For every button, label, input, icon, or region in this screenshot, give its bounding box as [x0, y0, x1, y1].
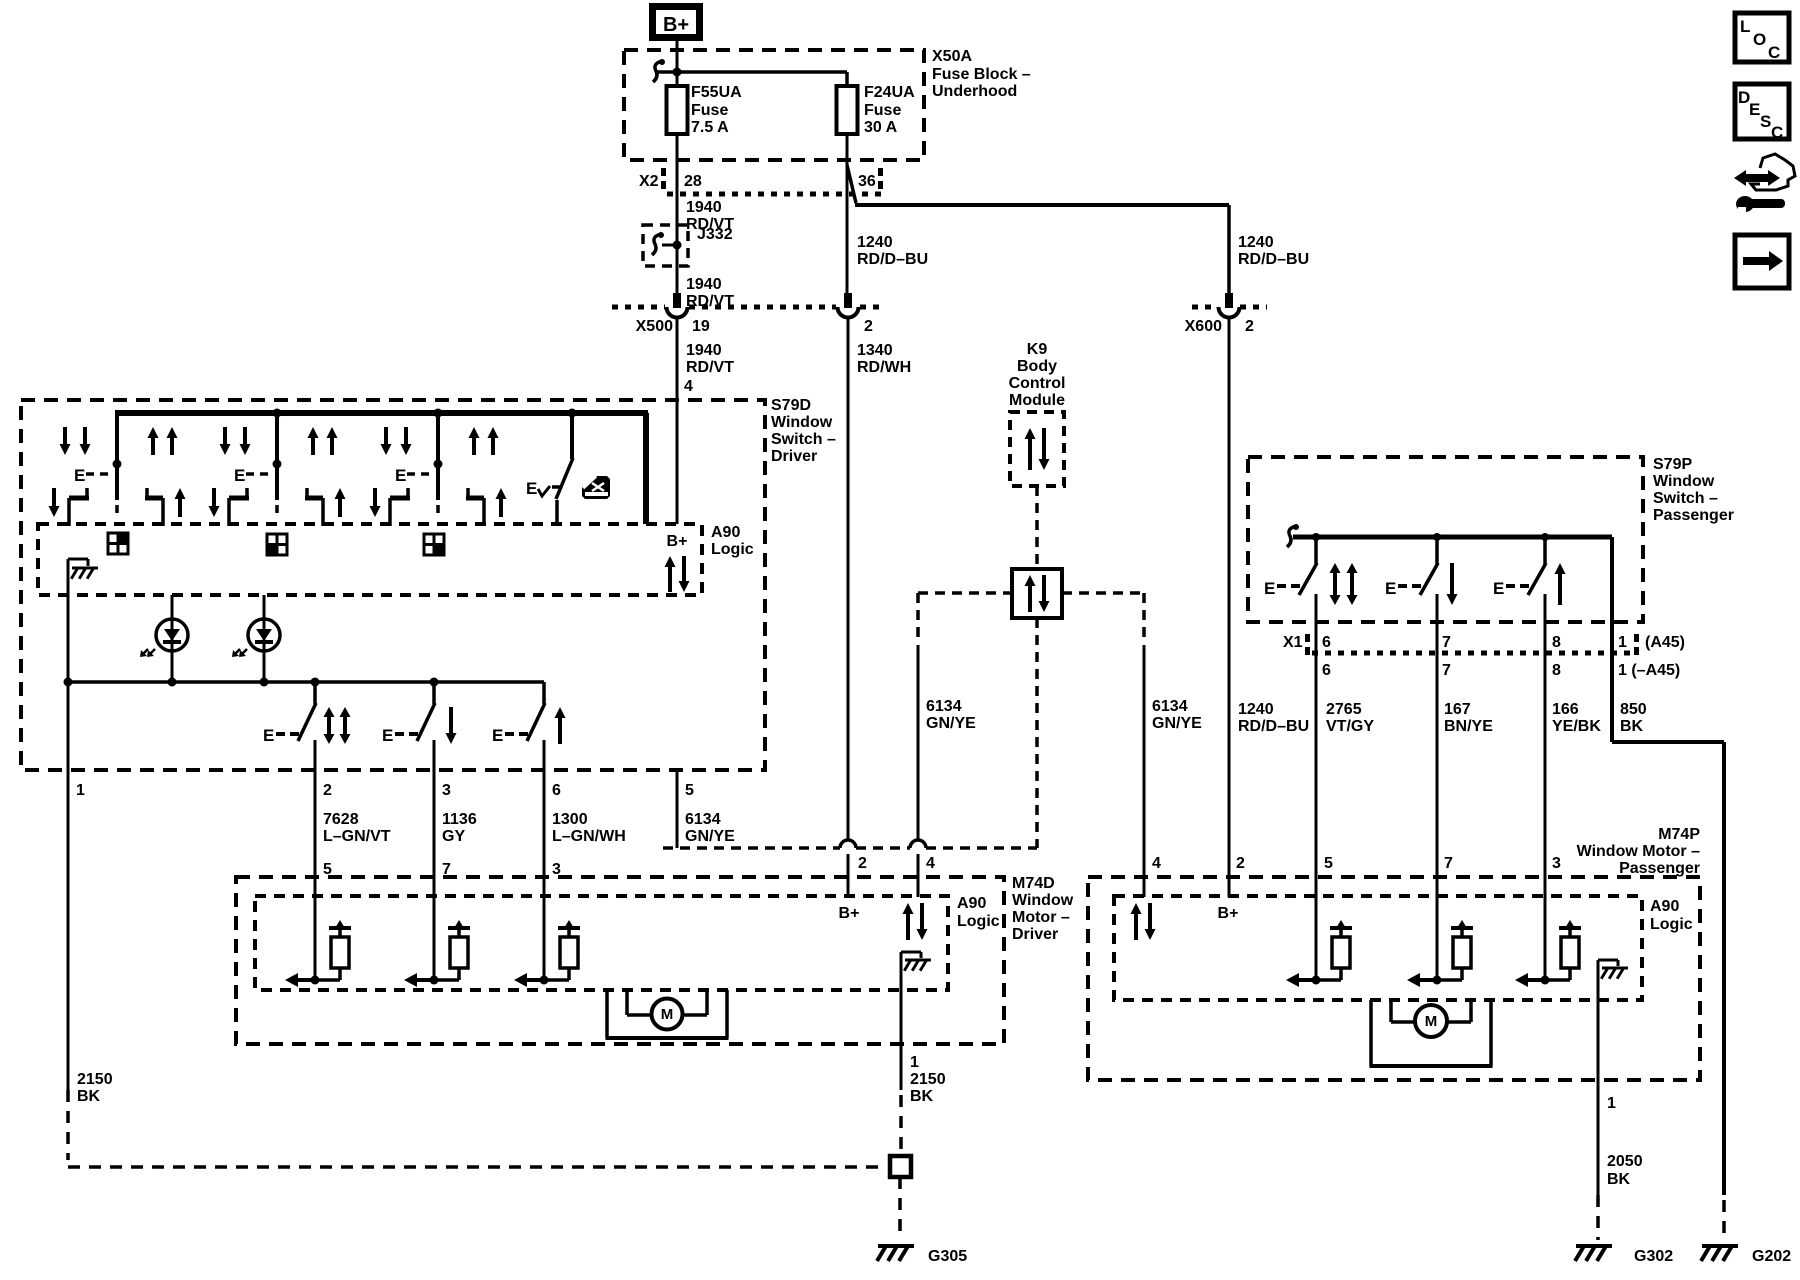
- svg-text:7.5 A: 7.5 A: [691, 119, 729, 136]
- ground logic of M74D: [900, 952, 903, 1090]
- switch to pin 2 with up-down arrows: [313, 682, 317, 704]
- svg-text:2050: 2050: [1607, 1153, 1643, 1170]
- svg-text:Logic: Logic: [1650, 916, 1693, 933]
- pin 4 logic arrows: [917, 877, 920, 897]
- junction node: [673, 68, 682, 77]
- serial data dashed wire K9 to data box: [1035, 486, 1039, 569]
- internal bus to switches: [68, 680, 544, 684]
- svg-text:VT/GY: VT/GY: [1326, 718, 1374, 735]
- svg-text:M74P: M74P: [1658, 826, 1700, 843]
- svg-text:3: 3: [1552, 855, 1561, 872]
- wire 6134 GN/YE to M74D pin 4: [917, 645, 920, 841]
- svg-text:2150: 2150: [910, 1071, 946, 1088]
- serial data dashed link to K9: [663, 846, 840, 850]
- svg-text:6134: 6134: [685, 811, 721, 828]
- svg-text:X600: X600: [1185, 318, 1222, 335]
- svg-text:7: 7: [1444, 855, 1453, 872]
- svg-text:GN/YE: GN/YE: [685, 828, 735, 845]
- wire hop over serial dashed line: [840, 840, 856, 848]
- internal supply bus of S79D: [115, 410, 648, 416]
- svg-text:B+: B+: [663, 14, 689, 36]
- svg-text:8: 8: [1552, 662, 1561, 679]
- backlight LED 2: [263, 595, 266, 619]
- wire 1240 RD/D-BU down to X600: [1227, 205, 1231, 300]
- passenger switch pin 8 up: [1543, 537, 1547, 564]
- svg-text:28: 28: [684, 173, 702, 190]
- wire 7628 L-GN/VT: [314, 770, 317, 877]
- M74P Window Motor - Passenger dashed box: [1088, 877, 1700, 1080]
- svg-text:Window: Window: [1012, 892, 1074, 909]
- ground G202: [1702, 1244, 1738, 1248]
- svg-text:Passenger: Passenger: [1653, 507, 1734, 524]
- svg-text:BN/YE: BN/YE: [1444, 718, 1493, 735]
- svg-text:Module: Module: [1009, 392, 1065, 409]
- motor drive output channel at x=544: [543, 877, 546, 980]
- wire 166 YE/BK: [1544, 622, 1547, 877]
- connector X500 pin 2: [844, 293, 852, 308]
- svg-text:1240: 1240: [1238, 701, 1274, 718]
- svg-text:B+: B+: [667, 533, 688, 550]
- diagnostic hand-arrow icon: [1734, 170, 1780, 186]
- svg-text:36: 36: [858, 173, 876, 190]
- svg-text:Motor –: Motor –: [1012, 909, 1070, 926]
- svg-text:6: 6: [552, 782, 561, 799]
- svg-text:1 (–A45): 1 (–A45): [1618, 662, 1680, 679]
- svg-text:O: O: [1753, 30, 1766, 49]
- motor drive output channel at x=315: [314, 877, 317, 980]
- wire F24UA down to X2 pin 36: [846, 134, 849, 300]
- wire through F55UA: [676, 134, 679, 194]
- svg-text:RD/WH: RD/WH: [857, 359, 911, 376]
- svg-text:1136: 1136: [442, 811, 477, 828]
- svg-text:Fuse: Fuse: [864, 102, 901, 119]
- svg-text:RD/VT: RD/VT: [686, 359, 734, 376]
- B+ pin M74P: [1228, 877, 1231, 897]
- wire 167 BN/YE: [1436, 622, 1439, 877]
- backlight LED 1: [171, 595, 174, 619]
- wire 1136 GY: [433, 770, 436, 877]
- svg-text:1: 1: [1618, 634, 1627, 651]
- svg-text:S79D: S79D: [771, 397, 811, 414]
- svg-text:Logic: Logic: [957, 913, 1000, 930]
- svg-text:G202: G202: [1752, 1248, 1791, 1265]
- quadrant indicator square 1: [108, 533, 128, 554]
- svg-text:4: 4: [684, 378, 693, 395]
- svg-text:E: E: [1385, 579, 1396, 598]
- svg-text:GY: GY: [442, 828, 465, 845]
- svg-text:L–GN/VT: L–GN/VT: [323, 828, 391, 845]
- splice curl in fuse block: [653, 61, 663, 82]
- svg-text:M74D: M74D: [1012, 875, 1055, 892]
- svg-text:E: E: [234, 466, 245, 485]
- svg-text:Driver: Driver: [771, 448, 817, 465]
- svg-text:2765: 2765: [1326, 701, 1362, 718]
- svg-text:A90: A90: [1650, 898, 1679, 915]
- passenger switch pin 7 down: [1435, 537, 1439, 564]
- svg-text:1340: 1340: [857, 342, 893, 359]
- ground splice block: [890, 1156, 911, 1177]
- svg-text:19: 19: [692, 318, 710, 335]
- svg-text:E: E: [1749, 100, 1760, 119]
- quadrant indicator square 2: [267, 534, 287, 555]
- svg-text:Fuse Block –: Fuse Block –: [932, 66, 1031, 83]
- pin 1 wire of S79D: [67, 682, 70, 1090]
- svg-text:C: C: [1768, 43, 1780, 62]
- horizontal feed wire to right side: [855, 203, 1229, 207]
- svg-text:X500: X500: [636, 318, 673, 335]
- connector X500 dotted row: [612, 305, 665, 310]
- svg-text:2150: 2150: [77, 1071, 113, 1088]
- svg-text:1240: 1240: [1238, 234, 1274, 251]
- switch to pin 6 with up arrow: [542, 698, 546, 704]
- motor drive output channel at x=434: [433, 877, 436, 980]
- svg-text:7: 7: [1442, 634, 1451, 651]
- DESC icon box: [1735, 84, 1789, 139]
- svg-text:850: 850: [1620, 701, 1647, 718]
- svg-text:3: 3: [442, 782, 451, 799]
- window icon: [582, 476, 610, 499]
- svg-text:X50A: X50A: [932, 48, 972, 65]
- connector X500 pin 19: [673, 293, 681, 308]
- svg-text:E: E: [74, 466, 85, 485]
- passenger switch pin 6 up-down: [1314, 537, 1318, 564]
- fuse F24UA 30 A: [837, 86, 858, 134]
- window rocker switch contacts at pivot x=277: [223, 427, 227, 446]
- window rocker switch contacts at pivot x=117: [63, 427, 67, 446]
- svg-text:Switch –: Switch –: [771, 431, 836, 448]
- svg-text:Window Motor –: Window Motor –: [1577, 843, 1700, 860]
- LOC icon box: [1735, 13, 1789, 62]
- svg-text:6134: 6134: [1152, 698, 1188, 715]
- window rocker switch contacts at pivot x=438: [384, 427, 388, 446]
- S79D Window Switch - Driver dashed box: [21, 400, 765, 770]
- svg-text:A90: A90: [711, 524, 740, 541]
- svg-text:Switch –: Switch –: [1653, 490, 1718, 507]
- A90 logic box of M74D: [255, 896, 948, 990]
- svg-text:5: 5: [685, 782, 694, 799]
- arrow icon box: [1735, 235, 1789, 288]
- quadrant indicator square 3: [424, 534, 444, 555]
- serial data box: [1012, 569, 1062, 618]
- S79P Window Switch - Passenger dashed box: [1248, 457, 1643, 622]
- wire 1240 RD/D-BU to M74P pin 2: [1228, 317, 1231, 877]
- svg-text:X2: X2: [639, 173, 659, 190]
- svg-text:8: 8: [1552, 634, 1561, 651]
- svg-text:1940: 1940: [686, 276, 722, 293]
- svg-text:A90: A90: [957, 895, 986, 912]
- svg-text:1: 1: [76, 782, 85, 799]
- wire 1340 RD/WH to M74D pin 2: [847, 317, 850, 841]
- svg-text:5: 5: [1324, 855, 1333, 872]
- diagonal branch from pin 36: [847, 165, 856, 203]
- B+ pin label: [847, 877, 850, 897]
- svg-text:1: 1: [1607, 1095, 1616, 1112]
- motor drive output channel at x=1316: [1315, 877, 1318, 980]
- svg-text:1: 1: [910, 1054, 919, 1071]
- motor M: [605, 990, 609, 1038]
- svg-text:E: E: [526, 479, 537, 498]
- svg-text:1940: 1940: [686, 199, 722, 216]
- svg-text:X1: X1: [1283, 634, 1303, 651]
- svg-text:Window: Window: [771, 414, 833, 431]
- svg-text:6134: 6134: [926, 698, 962, 715]
- svg-text:Control: Control: [1009, 375, 1066, 392]
- svg-text:RD/D–BU: RD/D–BU: [1238, 718, 1309, 735]
- motor drive output channel at x=1545: [1544, 877, 1547, 980]
- svg-text:BK: BK: [77, 1088, 101, 1105]
- dashed wire to G305: [898, 1177, 902, 1240]
- svg-text:(A45): (A45): [1645, 634, 1685, 651]
- wire 2765 VT/GY: [1315, 622, 1318, 877]
- svg-text:30 A: 30 A: [864, 119, 898, 136]
- fuse block X50A dashed box: [624, 50, 924, 160]
- svg-text:7628: 7628: [323, 811, 359, 828]
- svg-text:2: 2: [864, 318, 873, 335]
- svg-text:2: 2: [323, 782, 332, 799]
- splice J332 dashed box: [643, 225, 688, 266]
- svg-text:2: 2: [858, 855, 867, 872]
- svg-text:2: 2: [1236, 855, 1245, 872]
- svg-text:G305: G305: [928, 1248, 967, 1265]
- svg-text:E: E: [492, 726, 503, 745]
- svg-text:E: E: [1264, 579, 1275, 598]
- ground logic of M74P: [1597, 960, 1600, 1195]
- wire bus to fuse F24UA: [655, 70, 847, 74]
- svg-text:L: L: [1740, 17, 1750, 36]
- svg-text:GN/YE: GN/YE: [926, 715, 976, 732]
- svg-text:7: 7: [1442, 662, 1451, 679]
- supply hook of S79P bus: [1287, 526, 1297, 547]
- svg-text:M: M: [661, 1006, 674, 1023]
- wire 1300 L-GN/WH: [543, 770, 546, 877]
- wire B+ to fuse block: [676, 41, 679, 88]
- svg-text:1300: 1300: [552, 811, 588, 828]
- ground G302: [1576, 1244, 1612, 1248]
- wire 6134 GN/YE to M74P pin 4: [1143, 645, 1146, 877]
- svg-text:K9: K9: [1027, 341, 1048, 358]
- svg-text:B+: B+: [839, 905, 860, 922]
- wire 1940 RD/VT through J332 to X500: [676, 194, 679, 293]
- serial data dashed branches: [918, 591, 1012, 595]
- B+ pin of A90 logic: [676, 400, 679, 524]
- svg-text:S: S: [1760, 112, 1771, 131]
- svg-text:Logic: Logic: [711, 541, 754, 558]
- A90 Logic dashed box of S79D: [38, 524, 702, 595]
- pin 4 logic arrows M74P: [1143, 877, 1146, 897]
- svg-text:Body: Body: [1017, 358, 1057, 375]
- internal ground of S79D: [67, 559, 70, 682]
- svg-text:6: 6: [1322, 662, 1331, 679]
- A90 logic box of M74P: [1114, 896, 1642, 1000]
- svg-text:BK: BK: [1607, 1171, 1631, 1188]
- svg-text:1240: 1240: [857, 234, 893, 251]
- svg-text:E: E: [1493, 579, 1504, 598]
- svg-text:B+: B+: [1218, 905, 1239, 922]
- svg-text:F55UA: F55UA: [691, 84, 742, 101]
- svg-text:2: 2: [1245, 318, 1254, 335]
- svg-text:RD/D–BU: RD/D–BU: [857, 251, 928, 268]
- svg-text:G302: G302: [1634, 1248, 1673, 1265]
- svg-text:RD/D–BU: RD/D–BU: [1238, 251, 1309, 268]
- svg-text:1940: 1940: [686, 342, 722, 359]
- battery feed B+ box: [653, 7, 700, 38]
- fuse F55UA 7.5 A: [667, 86, 688, 134]
- M74D Window Motor - Driver dashed box: [236, 877, 1004, 1044]
- svg-text:Passenger: Passenger: [1619, 860, 1700, 877]
- svg-text:GN/YE: GN/YE: [1152, 715, 1202, 732]
- svg-text:167: 167: [1444, 701, 1471, 718]
- svg-text:166: 166: [1552, 701, 1579, 718]
- motor M: [1369, 1000, 1373, 1066]
- svg-text:Driver: Driver: [1012, 926, 1058, 943]
- svg-text:BK: BK: [910, 1088, 934, 1105]
- svg-text:E: E: [382, 726, 393, 745]
- motor drive output channel at x=1437: [1436, 877, 1439, 980]
- svg-text:6: 6: [1322, 634, 1331, 651]
- svg-text:S79P: S79P: [1653, 456, 1692, 473]
- svg-text:E: E: [263, 726, 274, 745]
- svg-text:YE/BK: YE/BK: [1552, 718, 1601, 735]
- ground G305: [878, 1244, 914, 1248]
- wire 6134 GN/YE from pin 5: [676, 770, 679, 848]
- svg-text:L–GN/WH: L–GN/WH: [552, 828, 626, 845]
- wrench icon: [1736, 196, 1754, 212]
- svg-text:4: 4: [926, 855, 935, 872]
- svg-text:E: E: [395, 466, 406, 485]
- S79P internal bus: [1293, 535, 1612, 540]
- wire 1940 RD/VT to S79D pin 4: [676, 317, 679, 400]
- svg-text:BK: BK: [1620, 718, 1644, 735]
- switch to pin 3 with down arrow: [432, 682, 436, 704]
- connector X600: [1192, 305, 1218, 310]
- svg-text:Fuse: Fuse: [691, 102, 728, 119]
- svg-text:J332: J332: [697, 226, 733, 243]
- svg-text:Underhood: Underhood: [932, 83, 1017, 100]
- svg-text:C: C: [1771, 123, 1783, 142]
- svg-text:M: M: [1425, 1013, 1438, 1030]
- svg-text:4: 4: [1152, 855, 1161, 872]
- svg-text:F24UA: F24UA: [864, 84, 915, 101]
- svg-text:Window: Window: [1653, 473, 1715, 490]
